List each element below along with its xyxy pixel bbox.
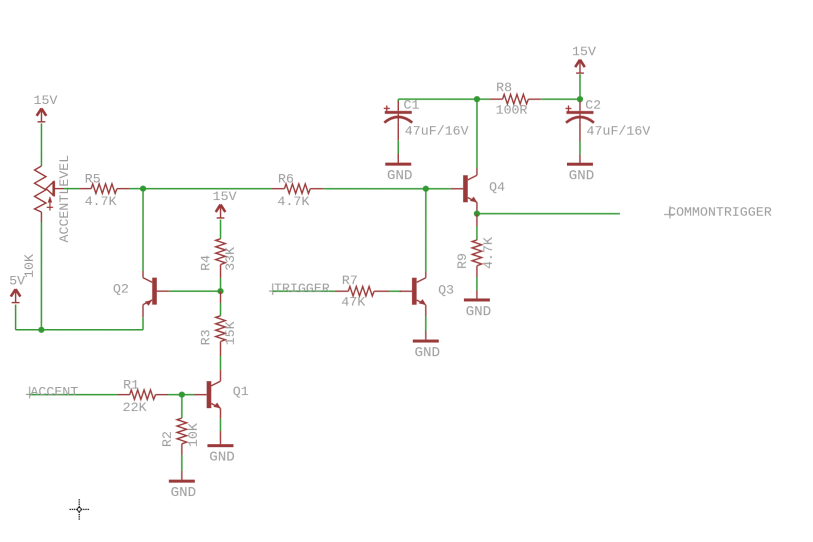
wire pot bottom to 5V rail <box>40 222 42 330</box>
wire node E to C1 <box>398 99 477 101</box>
C2 lead to GND <box>579 123 581 163</box>
svg-text:ACCENTLEVEL: ACCENTLEVEL <box>57 155 72 243</box>
C2 name <box>585 98 601 113</box>
wire node C to R3 <box>219 291 221 316</box>
R3 name <box>198 329 213 345</box>
junction node F <box>474 211 480 217</box>
wire 5V rail horizontal <box>16 329 143 331</box>
R6 right lead <box>310 188 323 190</box>
svg-text:R6: R6 <box>278 172 294 187</box>
Q3 name <box>438 283 454 298</box>
pot value 10K <box>22 254 37 278</box>
svg-text:R2: R2 <box>160 431 175 447</box>
wire 15V-right to node C2 <box>579 74 581 98</box>
svg-text:33K: 33K <box>223 247 238 271</box>
Q4 name <box>489 180 505 195</box>
R7 name <box>342 273 358 288</box>
label COMMONTRIGGER cross <box>664 206 674 218</box>
wire node D to Q1 base <box>182 394 194 396</box>
resistor R6 4.7K <box>284 184 310 194</box>
R1 value 22K <box>123 400 147 415</box>
ground GND under C2 <box>567 163 594 185</box>
C1 lead to GND <box>397 122 399 162</box>
Q4 emitter wire to node F <box>476 202 478 213</box>
origin crosshair <box>70 499 89 520</box>
transistor Q4 NPN <box>451 175 477 202</box>
label ACCENT text <box>30 385 78 400</box>
Q2 collector wire up to node A <box>142 189 144 278</box>
wire R6 to node B <box>323 188 426 190</box>
wire node G to C2 <box>579 99 581 101</box>
svg-text:GND: GND <box>387 168 413 184</box>
junction node G <box>577 96 583 102</box>
svg-text:R7: R7 <box>342 273 358 288</box>
svg-text:GND: GND <box>466 304 492 320</box>
wire node C to Q2 base <box>169 290 220 292</box>
svg-text:R8: R8 <box>496 80 512 95</box>
wire node B to Q4 base <box>426 188 451 190</box>
resistor R9 4.7K <box>472 240 482 266</box>
svg-text:R4: R4 <box>198 255 213 271</box>
resistor R2 10K <box>177 418 187 444</box>
R1 name <box>123 378 139 393</box>
label TRIGGER cross <box>269 283 277 295</box>
svg-text:GND: GND <box>171 485 197 501</box>
svg-text:TRIGGER: TRIGGER <box>274 281 330 296</box>
wire 5V down <box>15 305 17 330</box>
svg-text:ACCENT: ACCENT <box>30 385 78 400</box>
resistor R5 4.7K <box>91 184 117 194</box>
label TRIGGER text <box>274 281 330 296</box>
Q4 collector wire up to node E <box>476 99 478 175</box>
resistor R4 33K <box>216 239 226 265</box>
resistor R3 15K <box>216 316 226 342</box>
svg-text:22K: 22K <box>123 400 147 415</box>
ground GND under C1 <box>385 163 412 185</box>
Q1 name <box>233 384 249 399</box>
R8 right lead <box>528 98 541 100</box>
C1 name <box>403 98 419 113</box>
Q2 name <box>113 281 129 296</box>
junction node E <box>474 96 480 102</box>
capacitor C1 47uF/16V <box>384 101 413 123</box>
transistor Q3 NPN <box>400 278 426 305</box>
R8 value 100R <box>496 103 528 118</box>
label ACCENT cross <box>26 387 34 399</box>
R2 value 10K <box>186 423 201 447</box>
svg-text:R3: R3 <box>198 329 213 345</box>
wire node E to R8 <box>477 98 490 100</box>
R6 name <box>278 172 294 187</box>
label COMMONTRIGGER text <box>668 205 772 220</box>
ground GND under R9 <box>464 298 491 320</box>
resistor R8 100R <box>503 94 529 104</box>
R8 left lead <box>490 98 503 100</box>
R4 name <box>198 255 213 271</box>
potentiometer ACCENTLEVEL 10K <box>35 166 54 212</box>
svg-text:GND: GND <box>415 345 441 361</box>
resistor R1 22K <box>130 390 156 400</box>
svg-text:R5: R5 <box>85 172 101 187</box>
supply +15V (top right) <box>572 44 596 73</box>
wire 15V-left to potentiometer <box>40 123 42 166</box>
R7 left lead <box>335 290 349 292</box>
svg-text:47uF/16V: 47uF/16V <box>586 124 650 139</box>
R6 left lead <box>272 188 285 190</box>
R5 value <box>85 194 117 209</box>
svg-text:47K: 47K <box>341 295 365 310</box>
svg-text:GND: GND <box>569 168 595 184</box>
svg-text:4.7K: 4.7K <box>481 237 496 269</box>
wire R4 to node C <box>219 278 221 291</box>
R3 bottom lead <box>219 342 221 382</box>
C2 value <box>586 124 650 139</box>
svg-text:15V: 15V <box>33 93 57 108</box>
wire R5 to node A <box>130 188 143 190</box>
R8 name <box>496 80 512 95</box>
R4 value 33K <box>223 247 238 271</box>
svg-text:C2: C2 <box>585 98 601 113</box>
svg-text:10K: 10K <box>22 254 37 278</box>
R1 right lead <box>155 394 167 396</box>
wire 15V-mid to R4 <box>220 220 222 239</box>
svg-text:R9: R9 <box>455 253 470 269</box>
supply +15V (left) <box>33 93 57 122</box>
svg-text:GND: GND <box>209 450 235 466</box>
wire pot wiper to R5 <box>55 188 91 190</box>
transistor Q2 PNP <box>143 278 169 306</box>
R4 bottom lead <box>220 265 222 279</box>
Q1 emitter wire to GND <box>219 408 221 444</box>
Q3 collector wire up to node B <box>425 189 427 278</box>
junction node B <box>423 186 429 192</box>
pot name ACCENTLEVEL <box>57 155 72 243</box>
pot bottom lead <box>40 212 42 222</box>
supply +15V (middle, feeds R4) <box>213 189 237 218</box>
junction node C <box>217 288 223 294</box>
wire R1 to node D <box>168 394 182 396</box>
R1 left lead <box>117 394 129 396</box>
svg-text:COMMONTRIGGER: COMMONTRIGGER <box>668 205 772 220</box>
svg-text:C1: C1 <box>403 98 419 113</box>
R5 name <box>85 172 101 187</box>
R7 value 47K <box>341 295 365 310</box>
junction node D <box>179 392 185 398</box>
ground GND under Q3 <box>413 340 440 362</box>
wire R7 to Q3 base <box>389 290 401 292</box>
junction node A <box>140 186 146 192</box>
svg-text:15V: 15V <box>572 44 596 59</box>
wire ACCENT to R1 <box>30 394 118 396</box>
R2 bottom lead <box>181 444 183 480</box>
Q2 emitter wire down to 5V rail <box>142 305 144 330</box>
svg-text:Q2: Q2 <box>113 281 129 296</box>
R7 right lead <box>374 290 389 292</box>
resistor R7 47K <box>348 286 374 296</box>
svg-text:4.7K: 4.7K <box>277 194 309 209</box>
svg-text:Q1: Q1 <box>233 384 249 399</box>
ground GND under Q1 <box>207 444 234 466</box>
R9 bottom lead <box>476 266 478 299</box>
C1 value <box>405 123 469 138</box>
capacitor C2 47uF/16V <box>565 101 594 123</box>
wire node D down to R2 <box>181 395 183 418</box>
junction pot/5V rail <box>38 327 44 333</box>
wire node A to R6 <box>143 188 271 190</box>
R2 name <box>160 431 175 447</box>
svg-text:15V: 15V <box>213 189 237 204</box>
svg-text:R1: R1 <box>123 378 139 393</box>
wire node F to R9 <box>476 214 478 240</box>
Q3 emitter wire to GND <box>425 305 427 340</box>
supply +5V <box>9 274 25 303</box>
ground GND under R2 <box>169 480 196 502</box>
R6 value <box>277 194 309 209</box>
svg-text:10K: 10K <box>186 423 201 447</box>
svg-text:47uF/16V: 47uF/16V <box>405 123 469 138</box>
svg-text:Q4: Q4 <box>489 180 505 195</box>
wire R8 to node G <box>541 98 580 100</box>
svg-text:Q3: Q3 <box>438 283 454 298</box>
svg-text:4.7K: 4.7K <box>85 194 117 209</box>
R3 value 15K <box>223 321 238 345</box>
svg-text:15K: 15K <box>223 321 238 345</box>
svg-text:100R: 100R <box>496 103 528 118</box>
R5 right lead <box>117 188 130 190</box>
R9 name <box>455 253 470 269</box>
transistor Q1 NPN <box>194 381 220 408</box>
R9 value 4.7K <box>481 237 496 269</box>
wire node F to COMMONTRIGGER <box>477 213 620 215</box>
wire TRIGGER to R7 <box>273 290 335 292</box>
